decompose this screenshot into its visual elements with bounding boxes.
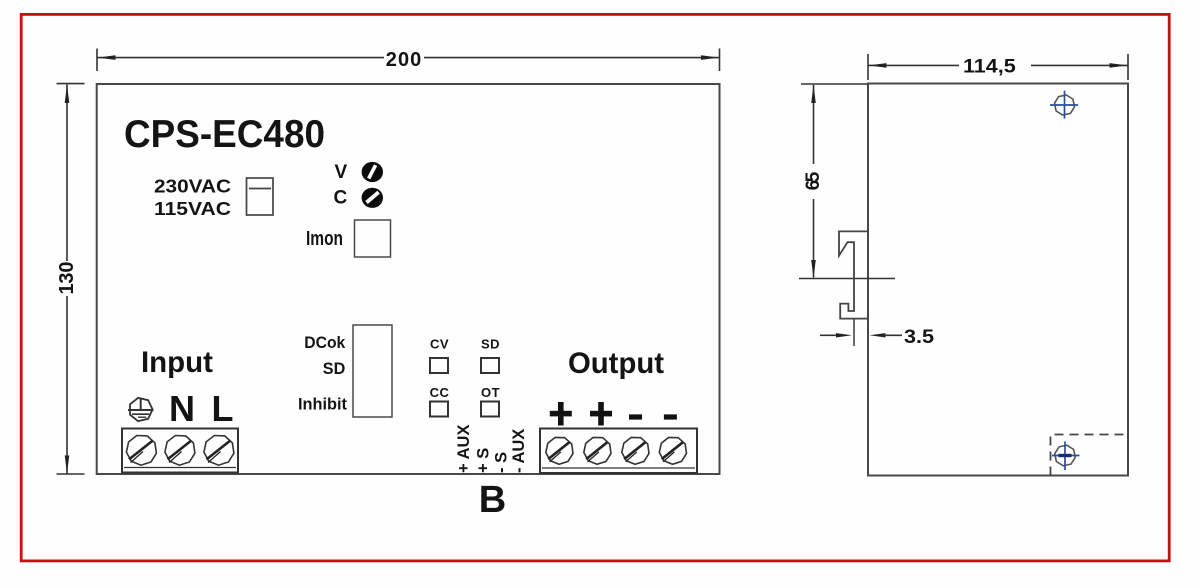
- svg-text:Input: Input: [141, 346, 213, 379]
- svg-text:CC: CC: [430, 385, 450, 400]
- svg-text:115VAC: 115VAC: [154, 199, 231, 219]
- svg-text:+ AUX: + AUX: [455, 425, 473, 473]
- svg-text:Imon: Imon: [306, 228, 343, 250]
- svg-text:B: B: [479, 479, 506, 521]
- svg-text:130: 130: [56, 262, 78, 295]
- svg-text:+ S: + S: [475, 448, 493, 473]
- svg-text:3.5: 3.5: [904, 327, 934, 348]
- svg-text:65: 65: [803, 171, 824, 190]
- svg-text:N: N: [169, 388, 195, 429]
- svg-text:OT: OT: [481, 385, 500, 400]
- svg-text:230VAC: 230VAC: [154, 176, 231, 196]
- svg-text:DCok: DCok: [304, 333, 345, 352]
- svg-text:SD: SD: [481, 336, 500, 351]
- svg-text:SD: SD: [323, 359, 346, 378]
- svg-text:Inhibit: Inhibit: [298, 395, 347, 414]
- svg-text:V: V: [334, 162, 347, 183]
- svg-text:200: 200: [386, 49, 422, 71]
- svg-text:- AUX: - AUX: [510, 429, 528, 473]
- svg-text:- S: - S: [493, 452, 511, 473]
- svg-text:CV: CV: [430, 336, 449, 351]
- svg-text:114,5: 114,5: [963, 57, 1016, 78]
- svg-text:Output: Output: [568, 347, 664, 380]
- svg-text:C: C: [334, 188, 348, 209]
- svg-text:CPS-EC480: CPS-EC480: [124, 113, 325, 156]
- svg-text:L: L: [212, 388, 234, 429]
